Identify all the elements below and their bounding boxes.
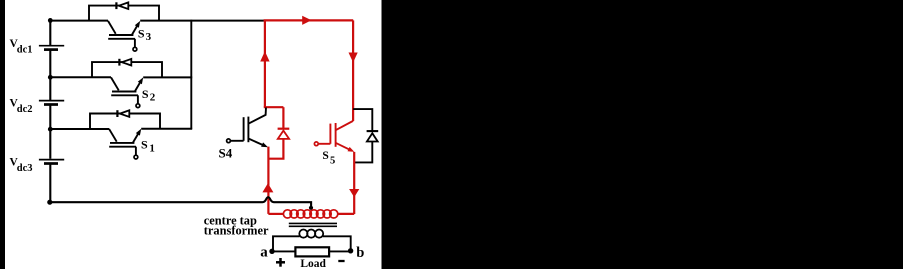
transistor S5 (IGBT, red) (314, 121, 354, 152)
wire node3 to S1 (50, 128, 109, 130)
svg-text:S: S (322, 150, 328, 162)
top rail red (264, 19, 354, 21)
primary right lead (337, 213, 354, 215)
svg-text:b: b (356, 245, 364, 261)
label minus (338, 260, 344, 262)
secondary right lead (323, 236, 351, 250)
diode D4 lower lead (268, 139, 283, 159)
svg-text:S4: S4 (219, 145, 233, 160)
svg-text:dc3: dc3 (17, 163, 33, 174)
red wire S4 emitter down to transformer (267, 147, 269, 214)
diode D4 triangle (278, 131, 289, 139)
red left vertical (to S4) (264, 20, 266, 107)
diode D5 lower lead (354, 142, 372, 163)
top rail black (140, 20, 265, 22)
arrow right on top rail (302, 16, 311, 25)
node 2 (48, 75, 53, 80)
S4 freewheel diode branch (red) (282, 107, 284, 128)
switch S2 (92, 59, 162, 108)
wire node2 to S2 (50, 76, 111, 78)
red wire S5 emitter down to transformer (353, 152, 355, 214)
right black panel (382, 0, 903, 269)
svg-text:Load: Load (300, 258, 326, 269)
svg-text:5: 5 (330, 156, 335, 167)
svg-text:2: 2 (150, 92, 156, 104)
svg-text:1: 1 (149, 143, 155, 155)
bottom return wire with hop over red (50, 197, 311, 206)
secondary left lead (273, 236, 300, 251)
secondary coil (black) (299, 230, 323, 238)
battery Vdc2 (39, 101, 64, 105)
battery Vdc3 (39, 160, 64, 164)
svg-text:a: a (260, 245, 268, 261)
node 1 (48, 18, 53, 23)
node b (348, 248, 353, 253)
switch S3 (89, 2, 159, 51)
svg-text:dc2: dc2 (17, 104, 33, 115)
svg-text:transformer: transformer (204, 224, 269, 238)
right vertical bus (190, 20, 192, 129)
svg-text:S: S (141, 138, 148, 152)
wire node1 to S3 (50, 20, 108, 22)
node 3 (48, 127, 53, 132)
black branch to S5 diode (353, 109, 372, 131)
main DC bus vertical wire (49, 20, 51, 202)
wire S2 output to right bus (143, 76, 192, 78)
load resistor box (295, 247, 329, 256)
svg-text:S: S (142, 87, 149, 101)
label plus (276, 258, 285, 267)
wire S1 output to right bus (141, 128, 192, 130)
svg-text:dc1: dc1 (17, 45, 33, 56)
arrow down on right vertical (349, 53, 358, 63)
arrow up on left vertical (260, 51, 269, 61)
switch S1 (90, 110, 160, 159)
battery Vdc1 (39, 46, 64, 50)
red right vertical (to S5) (352, 20, 354, 121)
wire a to load (272, 250, 295, 252)
node a (269, 249, 274, 254)
transistor S4 (IGBT, black) (227, 108, 268, 148)
svg-text:S: S (138, 27, 145, 41)
red corner to S4 diode branch (264, 106, 284, 108)
primary left lead (268, 213, 284, 215)
arrow down near transformer right (349, 189, 359, 197)
centre tap dot (309, 206, 313, 210)
primary coil (red) (283, 210, 337, 218)
diode D4 cathode bar (278, 128, 290, 130)
diode D5 triangle (367, 133, 378, 141)
node 4 (bottom) (47, 200, 52, 205)
arrow up near transformer left (262, 183, 273, 192)
left black border bar (0, 0, 5, 269)
transformer core (289, 222, 337, 224)
svg-text:3: 3 (146, 31, 152, 43)
wire load to b (329, 250, 351, 252)
diode D5 cathode bar (367, 130, 379, 132)
